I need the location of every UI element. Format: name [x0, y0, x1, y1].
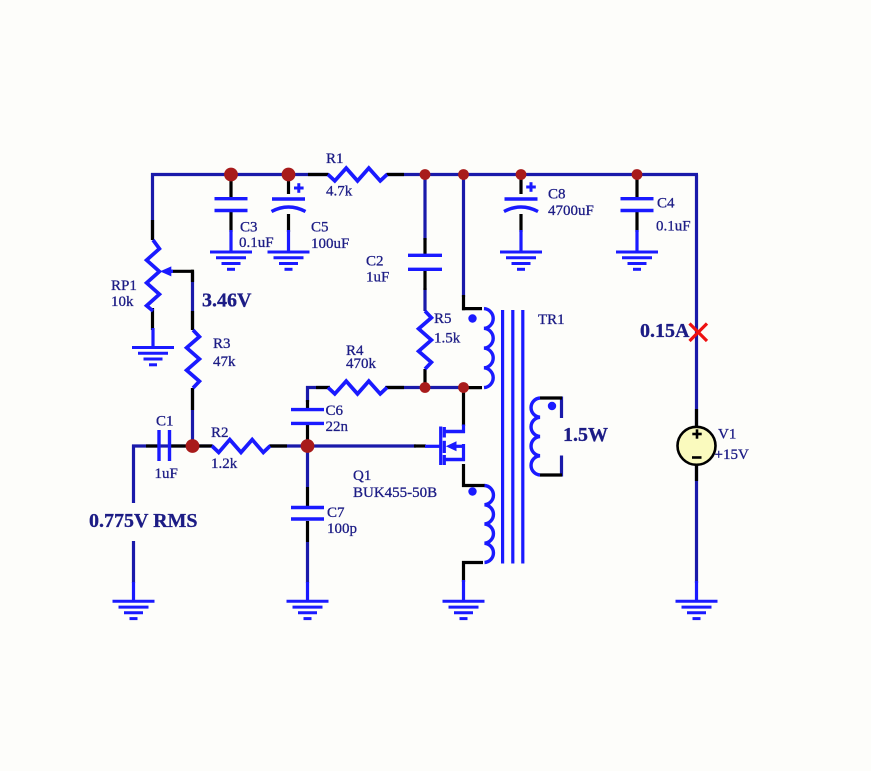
svg-text:C7: C7: [327, 505, 345, 521]
svg-text:C8: C8: [548, 187, 566, 203]
svg-text:C6: C6: [326, 403, 344, 419]
svg-text:1.5k: 1.5k: [434, 331, 461, 347]
svg-text:BUK455-50B: BUK455-50B: [353, 485, 437, 501]
svg-text:C4: C4: [657, 196, 675, 212]
svg-text:0.1uF: 0.1uF: [239, 235, 274, 251]
svg-text:100uF: 100uF: [311, 236, 349, 252]
svg-text:R1: R1: [326, 151, 344, 167]
svg-text:R5: R5: [434, 311, 452, 327]
svg-text:RP1: RP1: [111, 278, 137, 294]
svg-text:0.15A: 0.15A: [640, 320, 690, 342]
svg-text:1.2k: 1.2k: [211, 456, 238, 472]
svg-text:C2: C2: [366, 254, 384, 270]
svg-text:3.46V: 3.46V: [202, 289, 252, 311]
svg-text:47k: 47k: [213, 354, 236, 370]
svg-text:C5: C5: [311, 220, 329, 236]
svg-text:22n: 22n: [326, 419, 349, 435]
svg-text:1uF: 1uF: [366, 270, 389, 286]
svg-text:4700uF: 4700uF: [548, 203, 594, 219]
svg-text:4.7k: 4.7k: [326, 184, 353, 200]
svg-text:R3: R3: [213, 336, 231, 352]
svg-text:0.1uF: 0.1uF: [656, 219, 691, 235]
svg-text:C1: C1: [156, 414, 174, 430]
svg-text:C3: C3: [240, 220, 258, 236]
svg-text:+15V: +15V: [715, 447, 749, 463]
svg-text:100p: 100p: [327, 521, 357, 537]
svg-text:470k: 470k: [346, 356, 377, 372]
svg-text:1.5W: 1.5W: [563, 424, 608, 446]
svg-text:10k: 10k: [111, 294, 134, 310]
svg-text:R2: R2: [211, 425, 229, 441]
svg-text:1uF: 1uF: [155, 466, 178, 482]
svg-text:0.775V RMS: 0.775V RMS: [89, 510, 198, 532]
svg-text:Q1: Q1: [353, 468, 371, 484]
svg-text:TR1: TR1: [538, 312, 565, 328]
svg-text:V1: V1: [718, 427, 736, 443]
